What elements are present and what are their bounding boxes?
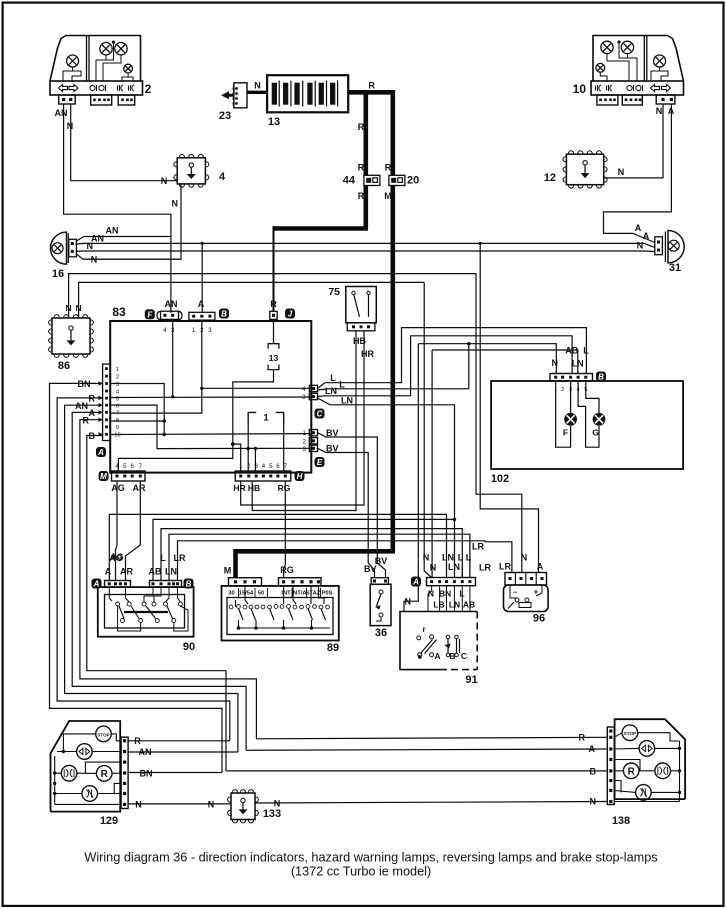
svg-text:A: A: [589, 744, 596, 754]
fuse box 13: [267, 75, 348, 112]
svg-text:N: N: [66, 303, 72, 313]
svg-text:L: L: [339, 380, 345, 390]
connector H badge: [295, 471, 305, 481]
svg-text:AN: AN: [165, 299, 178, 309]
91 switch A: [417, 636, 421, 640]
svg-text:N: N: [618, 167, 625, 177]
connector C pins: [309, 385, 317, 391]
earth connector 133: [231, 793, 255, 820]
svg-text:13: 13: [269, 353, 279, 363]
svg-text:LN: LN: [165, 567, 177, 577]
svg-text:AB: AB: [149, 567, 162, 577]
svg-text:16: 16: [52, 268, 64, 280]
svg-text:J: J: [288, 310, 293, 319]
svg-text:(1372 cc Turbo ie model): (1372 cc Turbo ie model): [291, 865, 431, 879]
internal wire B2 down to A7: [110, 320, 202, 413]
connector F badge: [145, 309, 155, 319]
connector H strip: [235, 471, 290, 481]
129 connector strip: [121, 737, 128, 808]
lamp cluster 10 headlamp right: [621, 41, 633, 53]
svg-text:10: 10: [114, 433, 120, 439]
svg-text:31: 31: [669, 262, 681, 274]
svg-text:−: −: [513, 590, 517, 597]
external A-connector wire BN: [50, 383, 223, 772]
svg-text:N: N: [423, 553, 430, 563]
96 connector strip: [505, 573, 547, 586]
svg-text:15/54: 15/54: [239, 591, 254, 597]
lamp G circuit in 102: [578, 381, 599, 447]
svg-text:90: 90: [183, 641, 195, 653]
91 pin drops into box: [428, 586, 432, 612]
svg-text:133: 133: [263, 808, 281, 820]
row R to 138: [256, 737, 606, 739]
svg-text:A: A: [89, 408, 96, 418]
svg-text:N: N: [254, 81, 261, 91]
svg-text:B: B: [598, 373, 604, 382]
svg-text:89: 89: [327, 642, 339, 654]
wire AN from 16 (row1): [76, 237, 170, 242]
switch 75 connector: [347, 323, 375, 331]
svg-text:HB: HB: [248, 483, 260, 493]
strip symbols: headlamp glyphs: [121, 85, 123, 91]
internal wire A8: [110, 420, 164, 422]
138 STOP lamp: [622, 725, 638, 741]
svg-text:4: 4: [219, 171, 226, 183]
svg-text:96: 96: [533, 613, 545, 625]
svg-text:B: B: [221, 310, 227, 319]
lamp cluster 2 left indicator lamp: [67, 55, 79, 67]
internal wire A3 right and down: [110, 384, 164, 435]
connector M strip: [112, 471, 146, 481]
internal relay 1 bracket: [248, 412, 284, 423]
svg-text:L: L: [583, 346, 589, 356]
fuse branch to H pin 1: [233, 444, 241, 471]
lamp cluster 2 divider: [86, 36, 88, 82]
thick wire R branch down to 44: [363, 90, 368, 229]
connector J pin: [270, 311, 277, 319]
short leg row448 to H3: [254, 449, 256, 471]
svg-text:BN: BN: [439, 589, 451, 599]
svg-text:9: 9: [116, 425, 119, 431]
svg-text:2: 2: [561, 387, 564, 393]
wire A from row2 to connector B: [201, 243, 203, 312]
89 connector strip right: [279, 578, 322, 586]
svg-text:RG: RG: [278, 483, 291, 493]
diagonals into 91 pins: [446, 565, 448, 578]
svg-text:M: M: [100, 472, 107, 481]
hazard switch 75: [346, 287, 377, 323]
svg-text:R: R: [270, 299, 277, 309]
svg-text:M: M: [224, 566, 232, 576]
lamp cluster 10 inner wires: [627, 54, 637, 81]
129 STOP lamp: [96, 726, 112, 742]
strip symbols: turn arrows: [59, 85, 68, 92]
svg-text:75: 75: [328, 286, 340, 298]
row A to 138: [246, 749, 606, 750]
svg-text:R: R: [368, 81, 375, 91]
svg-text:R: R: [101, 769, 109, 780]
connector F strip: [157, 312, 161, 320]
internal row to C4: [202, 387, 311, 389]
129 fog lamp: [82, 786, 98, 802]
strip symbols: sidelight glyphs: [90, 85, 95, 90]
thick wire R to J connector: [274, 226, 369, 231]
direction indicator switch 90 box: [98, 587, 194, 637]
svg-text:N: N: [430, 563, 437, 573]
arrow 23: [221, 91, 234, 99]
svg-text:C: C: [461, 651, 467, 661]
91 switch C: [456, 639, 458, 653]
89 inner contacts: [229, 605, 233, 609]
switch 36 contacts: [379, 590, 383, 594]
svg-text:r: r: [422, 625, 425, 634]
thick wire M to switch 89: [236, 549, 396, 554]
138 fog lamp: [636, 785, 652, 801]
external A-connector wire R lower: [80, 420, 257, 739]
129 internal wiring: [63, 734, 95, 752]
lamp cluster 2 small lamp: [124, 64, 133, 73]
wire N from row282 down to connector A of 91 pin1: [424, 282, 431, 577]
wire LR row to 96: [178, 541, 512, 581]
svg-text:N: N: [91, 255, 98, 265]
svg-text:3: 3: [116, 382, 119, 388]
svg-text:R: R: [579, 733, 586, 743]
wire AR from M7: [126, 481, 141, 581]
svg-text:H: H: [297, 472, 303, 481]
cluster 10 connector block 2: [622, 95, 642, 105]
svg-text:129: 129: [100, 815, 118, 827]
svg-text:138: 138: [612, 815, 630, 827]
internal row A5 to C3: [110, 396, 310, 399]
svg-text:LR: LR: [174, 553, 186, 563]
wire RG from H7 to switch 89: [284, 481, 286, 578]
wire N row343 to 102-1 and down to 91 left: [418, 344, 556, 374]
hazard flasher unit 96 box: [504, 585, 549, 612]
wire AN from cluster 2 down: [64, 104, 171, 313]
connector B of 102 strip: [550, 374, 593, 382]
svg-text:A: A: [97, 448, 104, 457]
svg-text:LN: LN: [442, 553, 454, 563]
svg-text:N: N: [208, 799, 215, 809]
switch 36 connector: [371, 578, 388, 585]
svg-text:AB: AB: [565, 346, 578, 356]
svg-text:BV: BV: [326, 428, 339, 438]
connector C badge: [315, 409, 325, 419]
svg-text:F: F: [563, 428, 568, 438]
svg-text:B: B: [186, 580, 192, 589]
svg-text:BN: BN: [140, 768, 153, 778]
lamp cluster 2 inner wire left: [63, 67, 73, 81]
svg-text:44: 44: [343, 175, 356, 187]
90 inner box: [105, 595, 185, 629]
svg-text:LB: LB: [433, 600, 444, 610]
svg-text:N: N: [172, 199, 179, 209]
cluster 2 connector block 2: [91, 95, 112, 105]
svg-text:AG: AG: [110, 552, 124, 562]
89 inner box: [227, 598, 333, 635]
wire L from C4 lower joins N row: [318, 344, 469, 390]
svg-text:A: A: [434, 651, 440, 661]
relay 1 left leg to H2: [247, 424, 249, 472]
svg-text:R: R: [385, 163, 392, 173]
svg-text:L: L: [330, 373, 336, 383]
svg-text:P0S: P0S: [322, 591, 333, 597]
lamp cluster 10 indicator lamp: [654, 55, 666, 67]
A strip wire arrowheads: [99, 381, 103, 385]
90 connector strip B: [150, 581, 182, 588]
svg-text:AN: AN: [55, 108, 68, 118]
strip 10 sidelight glyphs: [627, 85, 632, 90]
svg-text:N: N: [67, 121, 74, 131]
strip 10 symbols headlamp glyphs: [599, 85, 601, 91]
wire N from cluster 2 to earth 4: [71, 104, 178, 181]
strip 10 turn arrows: [651, 85, 660, 92]
wire N from 133 to 138: [255, 802, 607, 804]
129 indicator lamp: [77, 744, 93, 760]
90 connector B badge: [184, 579, 194, 589]
svg-text:N: N: [656, 106, 663, 116]
thick wire M down from junction: [390, 90, 395, 549]
svg-text:23: 23: [219, 110, 231, 122]
svg-text:AN: AN: [106, 226, 119, 236]
wire AN long row to 31 (row2): [76, 243, 654, 247]
90 inner contacts: [116, 602, 120, 606]
svg-text:AR: AR: [120, 567, 133, 577]
svg-text:A: A: [198, 299, 205, 309]
external A-connector wire AN: [65, 405, 238, 752]
connector M badge: [99, 471, 109, 481]
svg-text:13: 13: [268, 116, 280, 128]
svg-text:LN: LN: [325, 386, 337, 396]
svg-text:N: N: [552, 358, 559, 368]
129 reversing lamp: [96, 766, 112, 782]
side repeater lamp 16: [51, 232, 67, 264]
relay 1 right leg to H7: [283, 424, 285, 472]
lamp cluster 10 divider: [643, 36, 645, 82]
svg-text:102: 102: [491, 473, 509, 485]
svg-text:AB: AB: [463, 600, 475, 610]
svg-text:R: R: [358, 163, 365, 173]
thick wire R from fuse box: [348, 90, 393, 95]
connector A (left) strip: [103, 364, 111, 441]
138 tail lamp: [655, 763, 671, 779]
91 switch B arrow: [447, 639, 449, 653]
connector E badge: [315, 457, 325, 467]
lamp cluster 2 headlamp left: [100, 43, 112, 55]
front right lamp cluster 10 body: [593, 36, 684, 82]
internal wire F3 down: [172, 319, 174, 396]
svg-text:2: 2: [145, 82, 152, 96]
wire LN row350 to 102-4 and down to 91 pin2: [432, 350, 578, 374]
wire N fuse feed: [247, 91, 267, 94]
svg-text:N: N: [274, 799, 281, 809]
svg-text:86: 86: [58, 360, 70, 372]
svg-text:E: E: [317, 458, 323, 467]
svg-text:12: 12: [544, 172, 556, 184]
89 levers and bottom bus: [239, 609, 244, 621]
wire L from C4 upper to 102-5: [318, 328, 587, 389]
svg-text:STOP: STOP: [624, 731, 636, 736]
svg-text:AR: AR: [133, 483, 146, 493]
wire A from cluster 10 to repeater 31: [604, 104, 672, 243]
svg-text:R: R: [358, 122, 365, 132]
svg-text:R: R: [358, 191, 365, 201]
repeater 31 connector: [655, 237, 663, 255]
connector B badge: [219, 309, 229, 319]
svg-text:BV: BV: [326, 444, 339, 454]
wire N from 16 (row4): [76, 254, 181, 259]
lamp cluster 10 small lamp: [596, 63, 605, 72]
lamp cluster 2 headlamp right: [115, 43, 127, 55]
cluster 10 connector block 3: [656, 95, 675, 104]
svg-text:20: 20: [407, 175, 419, 187]
svg-text:LR: LR: [499, 562, 511, 572]
svg-text:LN: LN: [448, 562, 460, 572]
control unit box 83: [110, 321, 311, 473]
connector B strip: [189, 312, 215, 320]
svg-text:RG: RG: [280, 565, 294, 575]
svg-text:N: N: [521, 553, 528, 563]
svg-text:A: A: [537, 562, 544, 572]
fuse 13 inside 83: [273, 319, 275, 343]
svg-text:LN: LN: [572, 359, 584, 369]
89 connector strip left: [229, 578, 262, 586]
svg-text:6: 6: [116, 404, 119, 410]
svg-text:BV: BV: [364, 564, 377, 574]
svg-text:36: 36: [375, 627, 387, 639]
svg-text:R: R: [89, 394, 96, 404]
earth connector 86: [52, 318, 90, 354]
svg-text:B: B: [89, 431, 96, 441]
svg-text:50: 50: [258, 591, 264, 597]
number plate lamp unit 102 box: [491, 381, 683, 469]
connector B of 102 badge: [596, 372, 606, 382]
connector A of 91 badge: [411, 577, 421, 587]
svg-text:BV: BV: [375, 556, 388, 566]
90 connector A badge: [92, 579, 102, 589]
cluster 2 connector block 3: [118, 95, 135, 105]
fuse output wire to M and H: [118, 370, 273, 471]
wire LN from C3 upper to 102-3: [318, 336, 573, 397]
internal wire A6 to E3 row: [110, 405, 310, 449]
138 connector strip: [607, 727, 614, 805]
flasher 91 box: [400, 612, 477, 670]
90 levers: [119, 606, 124, 619]
svg-text:INT: INT: [281, 591, 291, 597]
wire N from earth 4 down: [83, 184, 181, 259]
90 connector strip A: [105, 581, 131, 588]
svg-text:M: M: [384, 191, 392, 201]
wire A row to 90: [109, 514, 446, 580]
svg-text:R: R: [83, 415, 90, 425]
external A-connector wire B: [87, 436, 226, 771]
svg-text:A: A: [412, 578, 419, 587]
connector A badge: [96, 447, 106, 457]
svg-text:30: 30: [228, 591, 234, 597]
rear left lamp cluster 129 body: [51, 721, 121, 812]
earth connector 4: [177, 158, 205, 184]
lamp F circuit in 102: [556, 381, 571, 447]
svg-text:HR: HR: [233, 483, 245, 493]
138 internal wiring: [614, 733, 622, 738]
svg-text:1: 1: [263, 413, 269, 424]
wire N from 16 (row3) long to 31: [76, 250, 654, 253]
svg-text:A: A: [643, 231, 650, 241]
wire HB from 75 to H2: [252, 331, 356, 511]
lamp cluster 2 inner wires right: [96, 55, 106, 81]
lamp cluster 10 strip: [591, 81, 684, 95]
svg-text:2: 2: [116, 374, 119, 380]
wire N row to 86 (upper): [69, 274, 522, 573]
svg-text:91: 91: [465, 674, 477, 686]
svg-text:N: N: [161, 176, 168, 186]
svg-text:LR: LR: [472, 542, 484, 552]
wire BV from E1 to 36: [318, 433, 386, 578]
flasher relay unit 91 connector A strip: [427, 578, 476, 586]
svg-text:STOP: STOP: [97, 732, 109, 737]
svg-text:AN: AN: [75, 401, 88, 411]
wire L row to 90: [161, 529, 462, 581]
svg-text:Wiring diagram 36 - direction: Wiring diagram 36 - direction indicators…: [84, 851, 657, 865]
svg-text:N: N: [405, 597, 412, 607]
rear right lamp cluster 138 body: [615, 719, 686, 799]
internal row A10 to E1: [110, 433, 310, 436]
129 tail lamp: [61, 765, 77, 781]
svg-text:1: 1: [116, 367, 119, 373]
138 indicator lamp: [639, 741, 655, 757]
svg-text:L: L: [466, 553, 472, 563]
wire AB row to 90: [153, 519, 455, 580]
ignition switch unit 89 box: [222, 586, 339, 641]
side repeater lamp 31: [668, 231, 684, 263]
svg-text:AG: AG: [111, 483, 125, 493]
svg-text:N: N: [87, 241, 94, 251]
external A-connector wire R: [57, 398, 230, 741]
connector J badge: [285, 309, 295, 319]
earth connector 12: [566, 154, 603, 185]
svg-text:G: G: [592, 428, 599, 438]
svg-text:LR: LR: [479, 563, 491, 573]
wire LN row to 90: [169, 534, 470, 580]
svg-text:LN: LN: [341, 396, 353, 406]
wire BV from E3 to 36: [318, 448, 375, 577]
svg-text:A: A: [635, 223, 642, 233]
svg-text:10: 10: [573, 82, 587, 96]
90 inner wires: [109, 587, 112, 601]
svg-text:R: R: [628, 767, 636, 778]
svg-text:A: A: [105, 567, 112, 577]
repeater 16 connector: [69, 239, 77, 256]
cluster 2 connector block 1: [59, 95, 75, 104]
svg-text:BN: BN: [78, 379, 91, 389]
wire N row to 86 (lower): [79, 282, 425, 318]
lamp cluster 2 strip: [50, 81, 143, 95]
svg-text:A: A: [93, 580, 100, 589]
cluster 10 connector block 1: [597, 95, 618, 105]
row B to 138: [226, 770, 607, 772]
svg-text:C: C: [317, 410, 323, 419]
reversing light switch 36 box: [370, 584, 391, 625]
wire LN from C3 lower down to 91: [318, 398, 455, 519]
138 reversing lamp: [623, 763, 639, 779]
wire A from row2 down to 96: [480, 243, 538, 572]
svg-text:B: B: [590, 766, 597, 776]
svg-text:N: N: [590, 797, 597, 807]
svg-text:N: N: [76, 303, 82, 313]
svg-text:83: 83: [112, 305, 126, 319]
front left lamp cluster 2 body: [50, 36, 141, 82]
wire AG from M4: [116, 481, 118, 581]
